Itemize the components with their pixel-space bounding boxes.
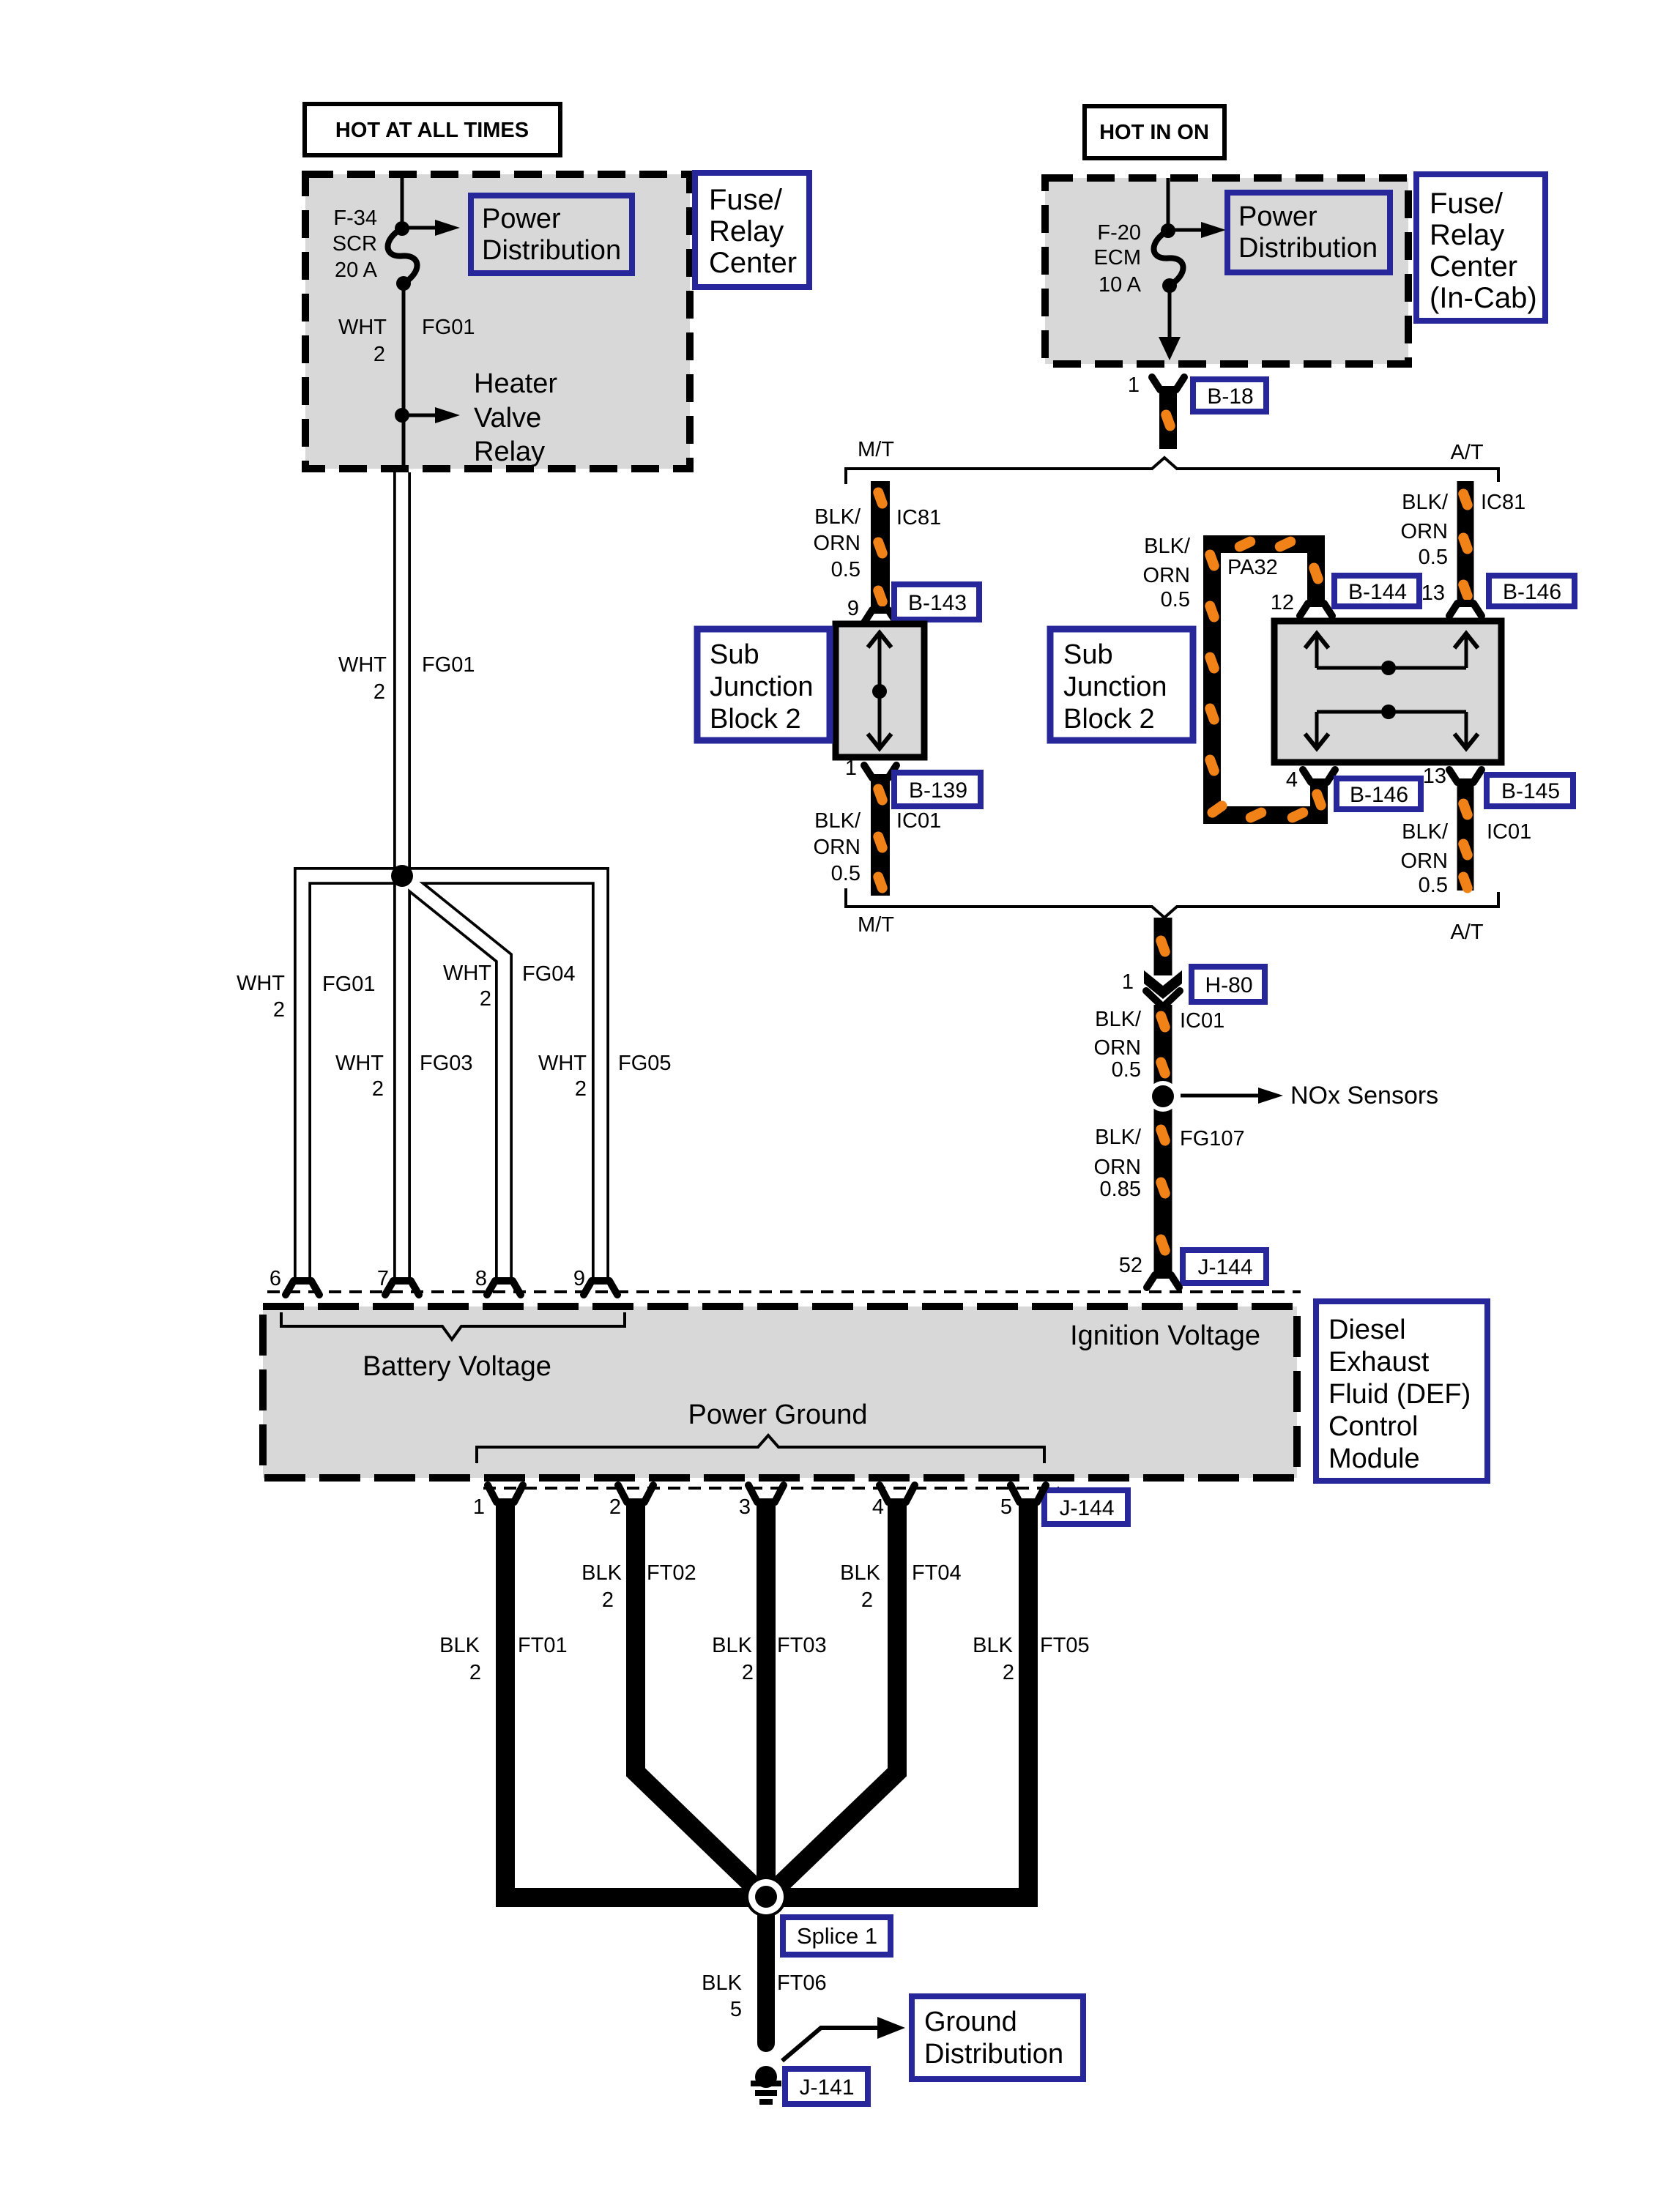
svg-text:FG03: FG03 [420, 1052, 473, 1075]
svg-text:Sub: Sub [710, 639, 759, 670]
svg-text:1: 1 [1128, 373, 1140, 397]
svg-text:IC81: IC81 [1481, 491, 1525, 514]
svg-text:IC01: IC01 [1180, 1009, 1224, 1033]
svg-text:Junction: Junction [710, 672, 814, 702]
svg-text:52: 52 [1119, 1254, 1142, 1277]
svg-text:9: 9 [847, 597, 859, 620]
svg-text:F-20: F-20 [1097, 221, 1141, 245]
svg-text:ECM: ECM [1094, 246, 1141, 269]
svg-text:IC01: IC01 [896, 809, 941, 833]
svg-text:BLK: BLK [973, 1634, 1013, 1657]
svg-text:2: 2 [373, 343, 385, 366]
svg-text:ORN: ORN [1401, 850, 1448, 873]
svg-text:Exhaust: Exhaust [1328, 1347, 1430, 1378]
svg-text:Valve: Valve [474, 403, 541, 434]
svg-text:HOT AT ALL TIMES: HOT AT ALL TIMES [335, 119, 529, 142]
svg-text:FT03: FT03 [777, 1634, 827, 1657]
svg-text:ORN: ORN [1401, 520, 1448, 543]
svg-text:Fuse/: Fuse/ [709, 184, 783, 216]
svg-text:2: 2 [861, 1588, 873, 1612]
svg-text:Power: Power [482, 204, 561, 234]
svg-text:B-145: B-145 [1501, 779, 1560, 803]
svg-text:FT04: FT04 [912, 1561, 962, 1585]
svg-text:4: 4 [872, 1495, 884, 1519]
svg-text:B-18: B-18 [1207, 384, 1253, 409]
svg-text:Distribution: Distribution [924, 2039, 1063, 2070]
svg-text:WHT: WHT [237, 972, 285, 995]
svg-text:13: 13 [1421, 581, 1445, 605]
svg-text:FT02: FT02 [647, 1561, 696, 1585]
svg-text:13: 13 [1423, 765, 1446, 788]
svg-text:BLK/: BLK/ [1144, 535, 1191, 558]
svg-text:Relay: Relay [709, 215, 784, 248]
svg-text:FG05: FG05 [618, 1052, 672, 1075]
svg-text:1: 1 [845, 757, 857, 780]
svg-text:F-34: F-34 [333, 207, 377, 230]
svg-text:Distribution: Distribution [1238, 233, 1378, 264]
svg-text:B-146: B-146 [1503, 580, 1561, 604]
svg-text:FT06: FT06 [777, 1971, 827, 1995]
svg-text:IC81: IC81 [896, 506, 941, 529]
svg-text:Block 2: Block 2 [1063, 704, 1155, 735]
svg-text:2: 2 [373, 680, 385, 704]
svg-text:Module: Module [1328, 1443, 1420, 1474]
svg-text:Power: Power [1238, 201, 1317, 232]
svg-text:H-80: H-80 [1205, 973, 1252, 997]
svg-text:Sub: Sub [1063, 639, 1113, 670]
svg-text:FT01: FT01 [518, 1634, 568, 1657]
svg-text:WHT: WHT [443, 962, 491, 985]
svg-text:2: 2 [575, 1077, 587, 1101]
svg-text:SCR: SCR [332, 232, 377, 256]
svg-text:0.5: 0.5 [1419, 874, 1448, 897]
svg-text:BLK/: BLK/ [1402, 491, 1449, 514]
svg-text:BLK: BLK [712, 1634, 752, 1657]
svg-text:B-146: B-146 [1350, 783, 1408, 807]
svg-text:M/T: M/T [858, 438, 894, 461]
svg-text:0.5: 0.5 [1161, 588, 1190, 611]
svg-text:20 A: 20 A [335, 259, 378, 282]
svg-text:J-141: J-141 [799, 2075, 854, 2100]
svg-text:M/T: M/T [858, 913, 894, 937]
svg-text:2: 2 [480, 987, 491, 1011]
svg-text:5: 5 [730, 1998, 742, 2021]
svg-text:WHT: WHT [335, 1052, 384, 1075]
svg-text:ORN: ORN [1094, 1036, 1141, 1060]
svg-text:FG04: FG04 [522, 962, 576, 986]
svg-text:ORN: ORN [1143, 564, 1190, 587]
svg-text:Battery Voltage: Battery Voltage [363, 1351, 551, 1382]
svg-text:10 A: 10 A [1099, 273, 1142, 297]
svg-text:9: 9 [573, 1267, 585, 1290]
svg-text:12: 12 [1271, 591, 1294, 614]
svg-text:WHT: WHT [338, 316, 387, 339]
svg-text:HOT IN ON: HOT IN ON [1099, 121, 1209, 144]
svg-text:2: 2 [742, 1661, 754, 1684]
svg-text:ORN: ORN [1094, 1156, 1141, 1179]
svg-text:Diesel: Diesel [1328, 1315, 1406, 1345]
svg-text:Splice 1: Splice 1 [797, 1923, 877, 1949]
svg-text:2: 2 [1003, 1661, 1014, 1684]
svg-text:0.5: 0.5 [1112, 1058, 1141, 1082]
svg-text:FG01: FG01 [422, 316, 475, 339]
svg-text:BLK: BLK [581, 1561, 622, 1585]
svg-text:5: 5 [1000, 1495, 1012, 1519]
svg-text:3: 3 [739, 1495, 751, 1519]
svg-text:BLK/: BLK/ [1095, 1126, 1142, 1149]
svg-text:ORN: ORN [814, 532, 861, 555]
svg-text:Fluid (DEF): Fluid (DEF) [1328, 1379, 1471, 1410]
svg-text:B-144: B-144 [1348, 580, 1407, 604]
svg-text:BLK/: BLK/ [814, 809, 861, 833]
svg-text:NOx Sensors: NOx Sensors [1290, 1082, 1438, 1109]
svg-text:1: 1 [1122, 970, 1134, 994]
svg-text:2: 2 [372, 1077, 384, 1101]
svg-text:FT05: FT05 [1040, 1634, 1090, 1657]
svg-text:Block 2: Block 2 [710, 704, 801, 735]
svg-text:B-139: B-139 [909, 778, 967, 803]
svg-text:Relay: Relay [474, 436, 545, 467]
svg-text:(In-Cab): (In-Cab) [1430, 282, 1537, 314]
svg-text:A/T: A/T [1450, 921, 1483, 944]
svg-text:Fuse/: Fuse/ [1430, 187, 1504, 220]
svg-text:WHT: WHT [538, 1052, 587, 1075]
svg-text:Heater: Heater [474, 368, 557, 399]
svg-text:J-144: J-144 [1059, 1496, 1114, 1520]
svg-text:2: 2 [609, 1495, 621, 1519]
svg-text:BLK/: BLK/ [814, 505, 861, 529]
svg-text:Center: Center [1430, 250, 1517, 283]
svg-text:BLK: BLK [840, 1561, 880, 1585]
svg-text:B-143: B-143 [908, 591, 967, 615]
svg-text:4: 4 [1286, 768, 1298, 792]
svg-text:PA32: PA32 [1227, 556, 1278, 579]
svg-text:Center: Center [709, 247, 797, 279]
svg-text:2: 2 [469, 1661, 481, 1684]
svg-text:2: 2 [273, 998, 285, 1022]
svg-text:FG01: FG01 [422, 653, 475, 677]
svg-text:WHT: WHT [338, 653, 387, 677]
svg-text:0.5: 0.5 [831, 862, 861, 885]
svg-text:0.85: 0.85 [1100, 1178, 1141, 1201]
svg-text:BLK/: BLK/ [1402, 820, 1449, 844]
svg-text:1: 1 [473, 1495, 485, 1519]
svg-text:Junction: Junction [1063, 672, 1167, 702]
svg-text:FG107: FG107 [1180, 1127, 1245, 1150]
svg-text:J-144: J-144 [1197, 1255, 1252, 1279]
svg-text:Control: Control [1328, 1411, 1419, 1442]
svg-text:Relay: Relay [1430, 219, 1504, 251]
svg-text:0.5: 0.5 [1419, 546, 1448, 569]
svg-text:BLK: BLK [702, 1971, 742, 1995]
svg-text:Power Ground: Power Ground [688, 1399, 867, 1430]
svg-text:0.5: 0.5 [831, 558, 861, 581]
svg-text:8: 8 [475, 1267, 487, 1290]
svg-text:ORN: ORN [814, 836, 861, 859]
svg-text:FG01: FG01 [322, 973, 376, 996]
svg-text:Ground: Ground [924, 2007, 1017, 2037]
svg-text:IC01: IC01 [1487, 820, 1531, 844]
svg-text:BLK: BLK [439, 1634, 480, 1657]
svg-text:Distribution: Distribution [482, 235, 621, 266]
svg-text:Ignition Voltage: Ignition Voltage [1070, 1320, 1260, 1351]
svg-text:A/T: A/T [1450, 441, 1483, 464]
svg-text:6: 6 [270, 1267, 281, 1290]
svg-text:BLK/: BLK/ [1095, 1008, 1142, 1031]
svg-text:2: 2 [602, 1588, 614, 1612]
